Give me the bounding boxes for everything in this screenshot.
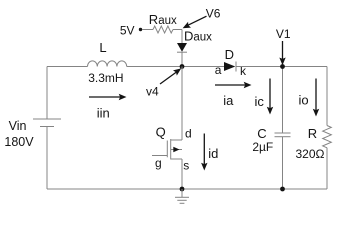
wire capacitor branch bottom [282,137,284,189]
svg-text:Vin: Vin [9,119,27,133]
svg-text:ia: ia [223,93,234,108]
svg-text:R: R [308,126,317,141]
svg-text:180V: 180V [4,135,34,149]
wire top-right segment [236,66,327,68]
wire top-middle segment [127,66,224,68]
current arrow io [313,79,319,117]
wire top-left segment [47,66,88,68]
node V1 arrow [279,41,285,65]
svg-text:g: g [155,156,162,170]
svg-text:a: a [215,63,222,77]
svg-text:id: id [208,146,218,161]
svg-text:V6: V6 [206,6,221,20]
svg-text:D: D [225,47,234,62]
diode Daux [177,43,187,52]
diode D [224,62,236,72]
svg-text:3.3mH: 3.3mH [88,71,123,85]
wire bottom [47,188,327,190]
node dot source-ground [180,187,185,192]
svg-text:iin: iin [97,105,110,120]
svg-text:5V: 5V [120,23,135,37]
svg-text:ic: ic [255,94,265,109]
svg-text:Q: Q [156,125,166,140]
current arrow id [201,134,207,171]
node dot V1 [280,64,285,69]
node dot capacitor-bottom [280,187,285,192]
wire capacitor branch top [282,67,284,134]
transistor Q source lead [181,159,183,189]
resistor Raux [153,26,173,33]
svg-text:v4: v4 [146,84,159,98]
svg-text:L: L [99,40,106,55]
node V6 arrow [183,16,207,28]
current arrow iin [89,94,127,100]
inductor L [88,61,127,67]
svg-text:Raux: Raux [149,12,177,27]
node v4 dot [180,64,185,69]
svg-text:V1: V1 [276,27,291,41]
ground [175,189,189,203]
wire right top [326,67,328,126]
wire left bottom [46,127,48,190]
wire Daux lead top [181,30,183,44]
node v4 arrow [160,68,181,84]
wire right bottom [326,148,328,189]
svg-text:C: C [257,126,266,141]
current arrow ic [267,79,273,115]
svg-text:io: io [299,92,309,107]
battery Vin [33,119,61,127]
svg-text:Daux: Daux [184,29,212,44]
capacitor C [275,133,291,137]
transistor Q [152,139,182,160]
svg-text:d: d [185,126,192,140]
wire left top [46,67,48,120]
resistor R [323,126,332,148]
wire Daux lead bottom [181,52,183,66]
svg-text:320Ω: 320Ω [296,147,325,161]
current arrow ia [215,82,252,88]
svg-text:s: s [183,158,189,172]
wire aux right [173,29,182,31]
transistor Q drain lead [181,67,183,141]
terminal dot 5V [139,28,142,31]
wire aux left [142,29,153,31]
svg-text:2µF: 2µF [252,140,273,154]
